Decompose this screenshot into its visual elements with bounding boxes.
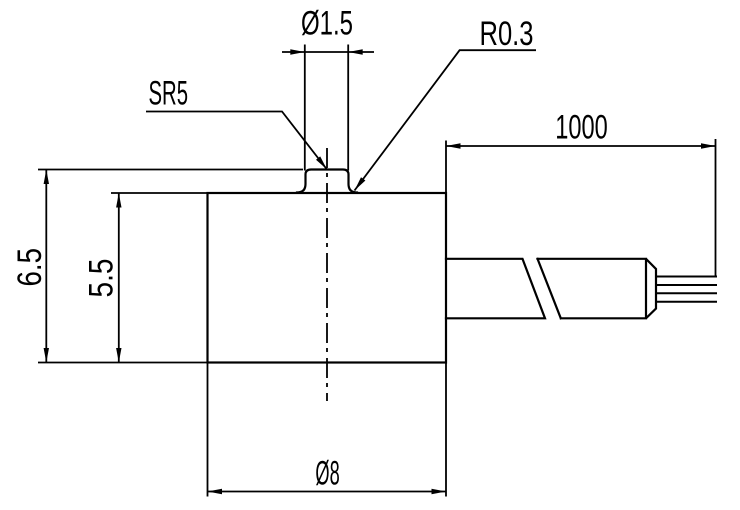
- svg-text:6.5: 6.5: [11, 248, 49, 287]
- svg-text:1000: 1000: [555, 109, 608, 147]
- svg-text:Ø1.5: Ø1.5: [301, 5, 353, 43]
- svg-text:Ø8: Ø8: [315, 454, 339, 492]
- svg-text:SR5: SR5: [149, 74, 189, 112]
- svg-text:R0.3: R0.3: [480, 15, 534, 53]
- svg-text:5.5: 5.5: [83, 259, 121, 298]
